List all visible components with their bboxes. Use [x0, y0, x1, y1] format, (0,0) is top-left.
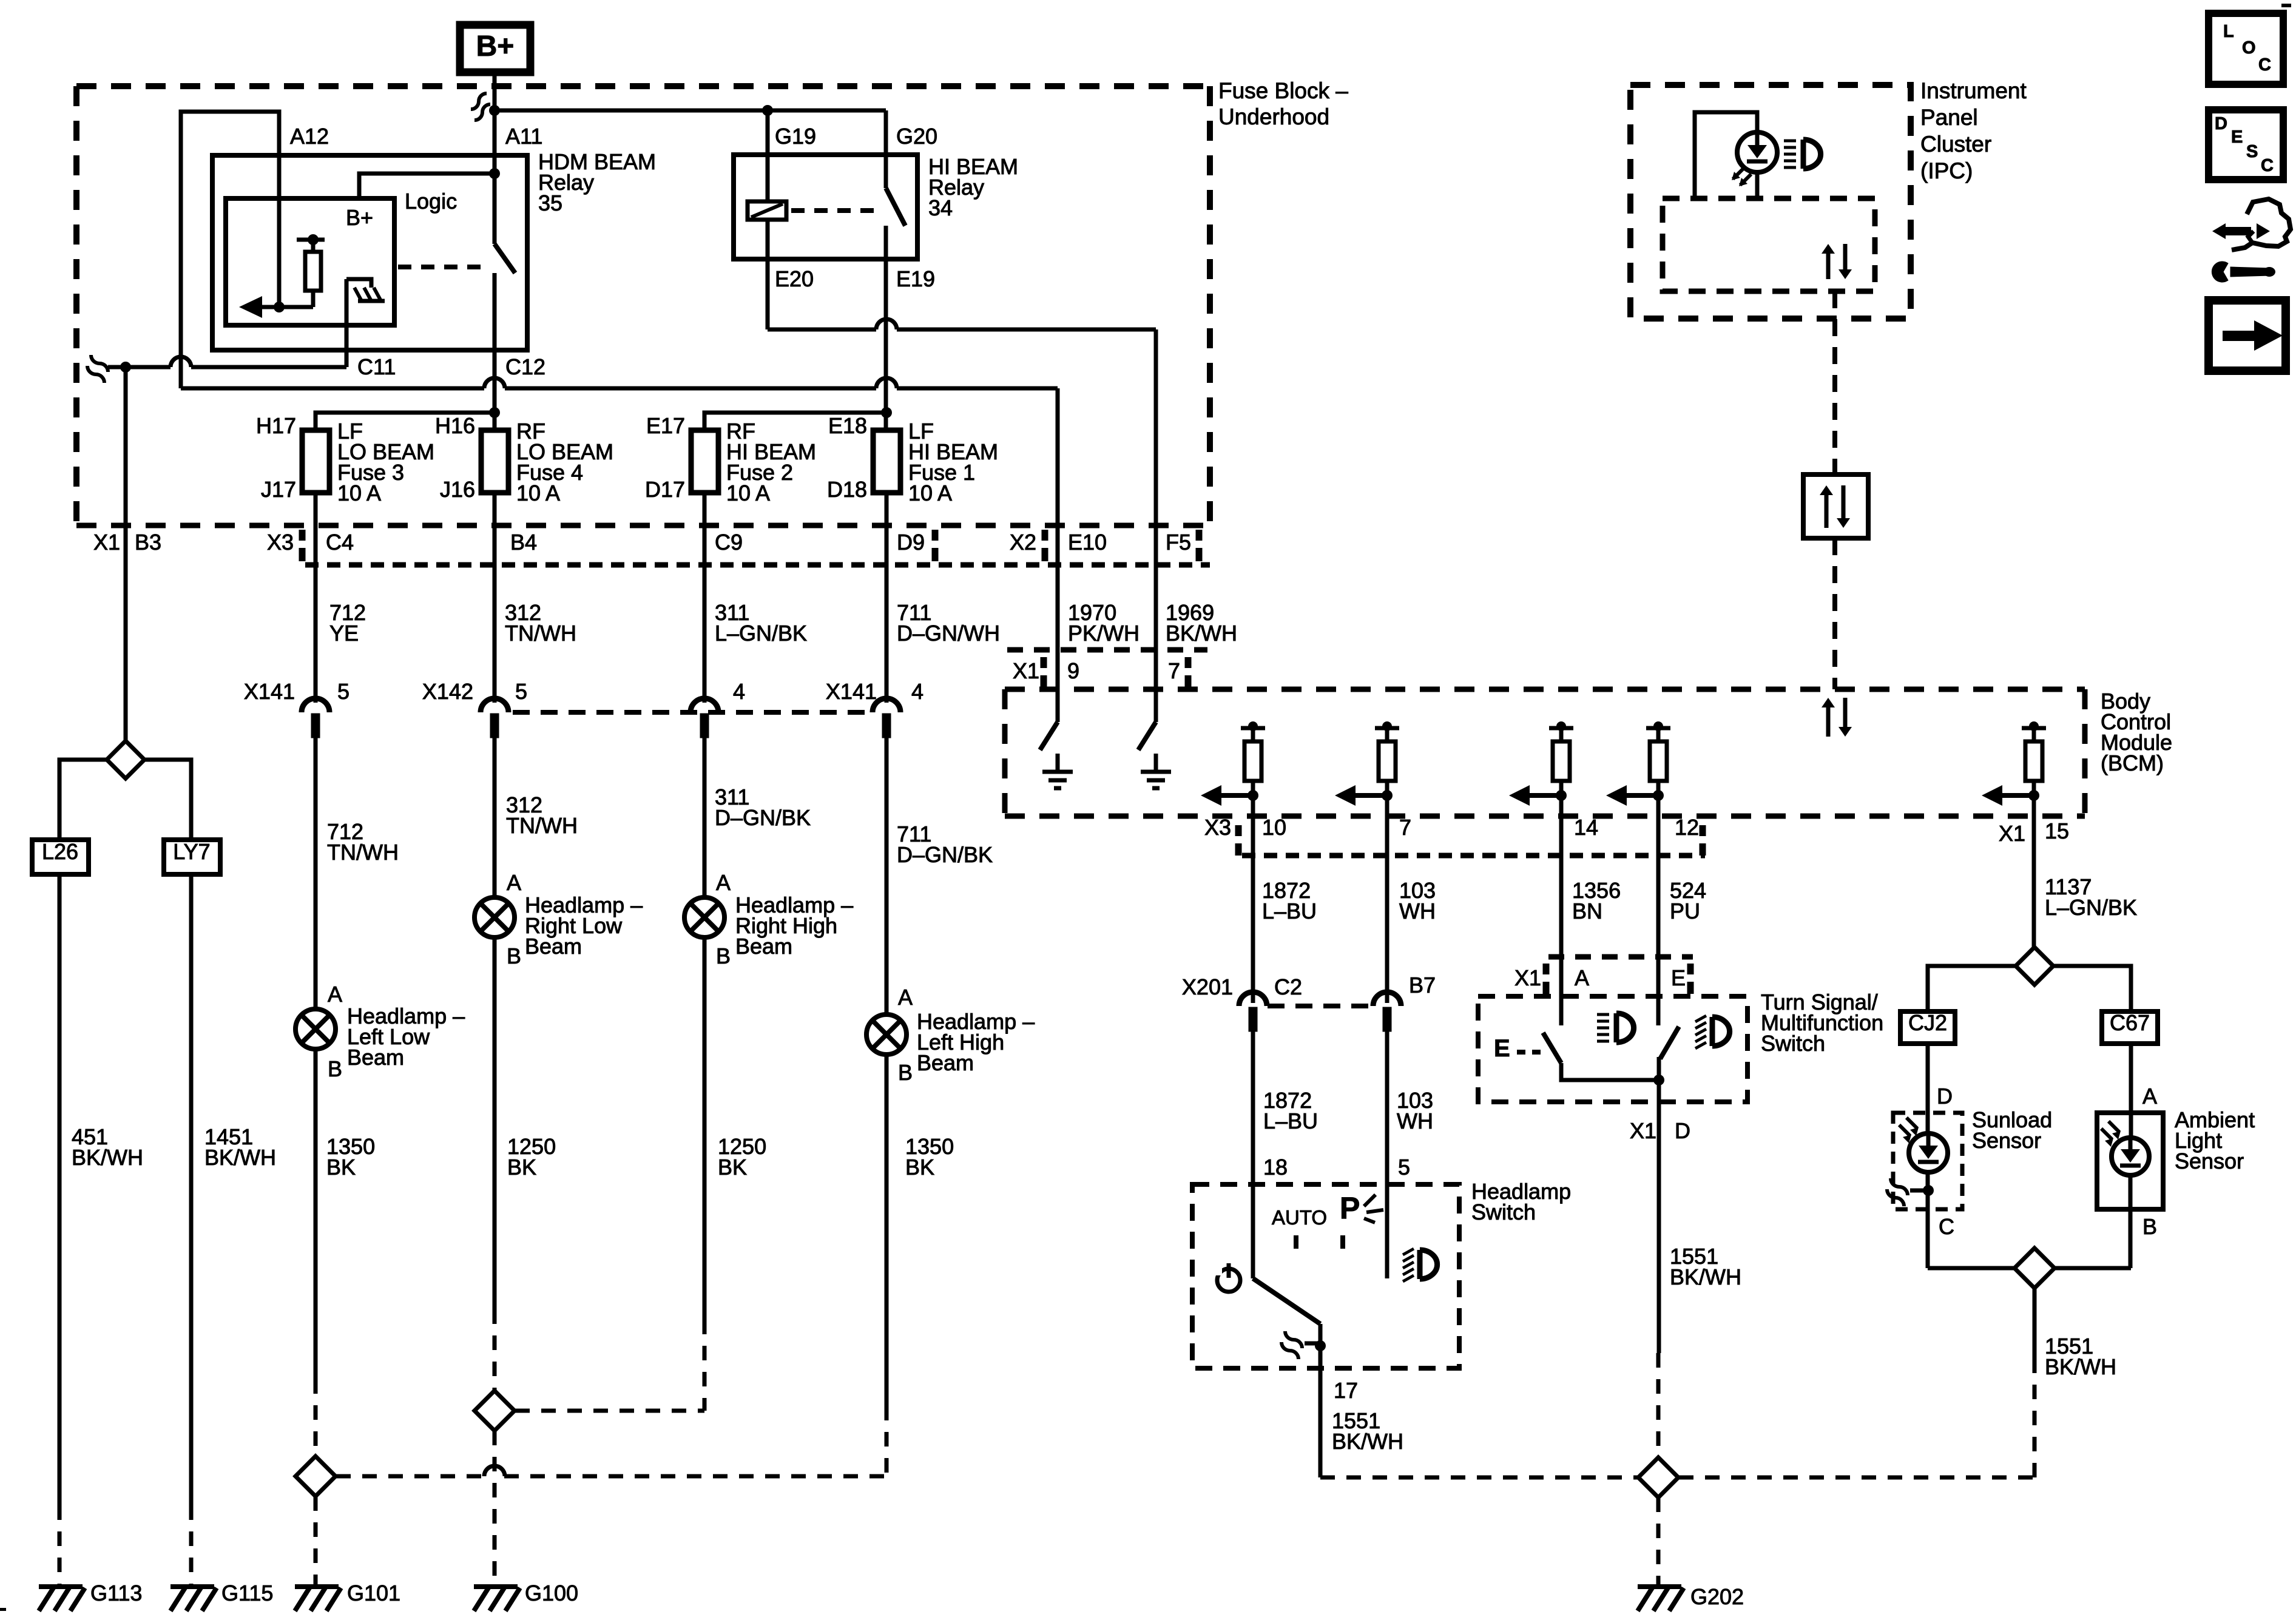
svg-text:Logic: Logic: [405, 189, 457, 214]
svg-text:PU: PU: [1670, 899, 1700, 923]
svg-text:9: 9: [1067, 658, 1079, 683]
svg-text:BN: BN: [1572, 899, 1602, 923]
svg-text:Sensor: Sensor: [2175, 1149, 2244, 1173]
svg-text:BK: BK: [507, 1155, 536, 1180]
svg-text:B+: B+: [476, 30, 515, 62]
svg-text:WH: WH: [1397, 1109, 1433, 1133]
svg-text:B: B: [898, 1060, 913, 1085]
svg-text:G113: G113: [90, 1581, 142, 1605]
svg-text:C4: C4: [326, 530, 354, 555]
svg-text:G100: G100: [525, 1581, 578, 1605]
svg-text:Beam: Beam: [347, 1045, 404, 1070]
svg-text:AUTO: AUTO: [1272, 1206, 1327, 1229]
svg-text:B: B: [507, 944, 521, 968]
svg-text:YE: YE: [329, 621, 359, 646]
svg-text:E17: E17: [646, 413, 685, 438]
svg-text:J17: J17: [261, 477, 296, 502]
svg-text:L–GN/BK: L–GN/BK: [715, 621, 807, 646]
svg-text:15: 15: [2045, 819, 2069, 843]
svg-text:G101: G101: [347, 1581, 400, 1605]
svg-text:BK/WH: BK/WH: [72, 1145, 143, 1170]
svg-text:A: A: [716, 870, 731, 895]
svg-text:X2: X2: [1010, 530, 1036, 555]
svg-text:B7: B7: [1409, 973, 1436, 998]
svg-text:Switch: Switch: [1761, 1031, 1825, 1056]
svg-text:WH: WH: [1399, 899, 1436, 923]
svg-text:Beam: Beam: [917, 1050, 974, 1075]
svg-text:7: 7: [1168, 658, 1180, 683]
svg-text:17: 17: [1334, 1378, 1358, 1403]
svg-text:7: 7: [1399, 815, 1411, 840]
svg-text:5: 5: [515, 679, 527, 704]
svg-text:BK/WH: BK/WH: [2045, 1354, 2116, 1379]
svg-text:Underhood: Underhood: [1218, 104, 1329, 129]
svg-text:(BCM): (BCM): [2101, 751, 2164, 775]
svg-text:E18: E18: [828, 413, 867, 438]
svg-text:BK/WH: BK/WH: [1166, 621, 1237, 646]
svg-text:B3: B3: [135, 530, 161, 555]
svg-text:10 A: 10 A: [726, 481, 770, 505]
svg-text:A: A: [328, 982, 342, 1007]
svg-text:10 A: 10 A: [337, 481, 381, 505]
svg-text:BK: BK: [326, 1155, 356, 1180]
svg-text:P: P: [1340, 1191, 1360, 1225]
svg-text:X142: X142: [422, 679, 473, 704]
svg-text:S: S: [2246, 142, 2258, 161]
svg-text:10 A: 10 A: [516, 481, 560, 505]
svg-text:C11: C11: [357, 354, 396, 379]
svg-text:35: 35: [538, 191, 562, 215]
svg-text:X1: X1: [1013, 658, 1039, 683]
svg-text:BK/WH: BK/WH: [1670, 1264, 1741, 1289]
svg-text:C: C: [2258, 55, 2271, 75]
svg-text:CJ2: CJ2: [1908, 1010, 1947, 1035]
svg-text:(IPC): (IPC): [1920, 158, 1973, 183]
svg-text:34: 34: [928, 195, 953, 220]
svg-text:4: 4: [733, 679, 745, 704]
svg-text:14: 14: [1574, 815, 1598, 840]
svg-text:E10: E10: [1068, 530, 1107, 555]
svg-text:BK: BK: [905, 1155, 934, 1180]
svg-text:C2: C2: [1274, 974, 1302, 999]
svg-text:L–BU: L–BU: [1262, 899, 1317, 923]
svg-text:G202: G202: [1690, 1584, 1744, 1609]
svg-text:D18: D18: [827, 477, 867, 502]
svg-text:A11: A11: [505, 124, 542, 149]
svg-text:Panel: Panel: [1920, 105, 1978, 130]
svg-text:Switch: Switch: [1471, 1200, 1536, 1224]
svg-text:E: E: [1671, 965, 1686, 990]
svg-text:5: 5: [1398, 1155, 1410, 1180]
svg-text:Fuse Block –: Fuse Block –: [1218, 78, 1348, 103]
svg-text:10 A: 10 A: [908, 481, 952, 505]
svg-text:LY7: LY7: [173, 839, 210, 864]
svg-text:G19: G19: [775, 124, 816, 149]
svg-text:X1: X1: [1630, 1118, 1656, 1143]
svg-text:H17: H17: [256, 413, 296, 438]
svg-text:B: B: [716, 944, 731, 968]
svg-text:TN/WH: TN/WH: [327, 840, 399, 865]
svg-text:E20: E20: [775, 266, 814, 291]
svg-text:C67: C67: [2110, 1010, 2150, 1035]
svg-text:D17: D17: [645, 477, 685, 502]
svg-text:X141: X141: [244, 679, 295, 704]
svg-text:BK/WH: BK/WH: [1332, 1429, 1403, 1454]
svg-text:Instrument: Instrument: [1920, 78, 2027, 103]
svg-text:A: A: [507, 870, 521, 895]
svg-text:X3: X3: [1204, 815, 1231, 840]
svg-text:12: 12: [1675, 815, 1699, 840]
svg-text:TN/WH: TN/WH: [505, 621, 576, 646]
svg-text:TN/WH: TN/WH: [506, 813, 578, 838]
svg-text:C: C: [1939, 1214, 1954, 1239]
svg-text:B: B: [2142, 1214, 2157, 1239]
svg-text:E: E: [1494, 1035, 1510, 1062]
svg-text:E: E: [2231, 127, 2243, 147]
svg-text:C12: C12: [505, 354, 545, 379]
svg-text:B+: B+: [346, 205, 373, 230]
svg-text:X1: X1: [1514, 965, 1541, 990]
svg-text:G20: G20: [896, 124, 937, 149]
svg-text:A: A: [1575, 965, 1589, 990]
svg-text:Sensor: Sensor: [1972, 1128, 2041, 1153]
svg-text:D: D: [1937, 1084, 1953, 1109]
svg-text:O: O: [2242, 38, 2256, 58]
svg-text:D–GN/BK: D–GN/BK: [715, 805, 811, 830]
svg-text:L: L: [2223, 22, 2234, 41]
svg-text:G115: G115: [221, 1581, 273, 1605]
svg-text:D9: D9: [897, 530, 925, 555]
svg-text:F5: F5: [1166, 530, 1191, 555]
svg-text:Beam: Beam: [525, 934, 582, 959]
svg-text:A: A: [2142, 1084, 2157, 1109]
svg-text:J16: J16: [440, 477, 475, 502]
svg-text:L26: L26: [42, 839, 78, 864]
svg-text:4: 4: [911, 679, 923, 704]
svg-text:D: D: [1675, 1118, 1690, 1143]
svg-text:H16: H16: [435, 413, 475, 438]
svg-text:Beam: Beam: [735, 934, 792, 959]
svg-text:10: 10: [1262, 815, 1286, 840]
svg-text:A: A: [898, 985, 913, 1010]
svg-text:A12: A12: [290, 124, 329, 149]
svg-text:D–GN/WH: D–GN/WH: [897, 621, 1000, 646]
svg-text:X201: X201: [1182, 974, 1233, 999]
svg-text:5: 5: [337, 679, 349, 704]
svg-text:C: C: [2261, 156, 2274, 175]
svg-text:BK/WH: BK/WH: [204, 1145, 276, 1170]
svg-text:PK/WH: PK/WH: [1068, 621, 1140, 646]
svg-text:X3: X3: [267, 530, 294, 555]
svg-text:B4: B4: [510, 530, 537, 555]
svg-text:B: B: [328, 1056, 342, 1081]
svg-text:Cluster: Cluster: [1920, 132, 1991, 157]
svg-text:E19: E19: [896, 266, 935, 291]
svg-text:D–GN/BK: D–GN/BK: [897, 842, 993, 867]
svg-text:BK: BK: [718, 1155, 747, 1180]
svg-text:18: 18: [1263, 1155, 1288, 1180]
svg-text:D: D: [2215, 114, 2227, 133]
svg-text:X1: X1: [1999, 821, 2025, 846]
svg-text:C9: C9: [715, 530, 743, 555]
svg-text:L–BU: L–BU: [1263, 1109, 1318, 1133]
svg-text:X141: X141: [826, 679, 877, 704]
svg-text:X1: X1: [93, 530, 120, 555]
svg-text:L–GN/BK: L–GN/BK: [2045, 895, 2137, 920]
